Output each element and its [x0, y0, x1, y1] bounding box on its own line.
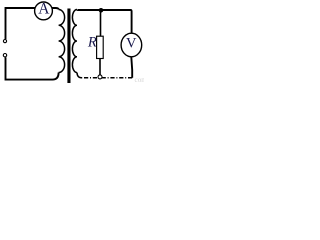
- voltmeter V: [121, 33, 142, 57]
- transformer core: [67, 9, 70, 84]
- svg-text:com: com: [135, 76, 145, 84]
- transformer primary coil: [59, 10, 65, 73]
- terminal: input bottom: [3, 54, 6, 57]
- wire: voltmeter bottom to corner: [130, 57, 133, 78]
- wire: junction down to resistor: [100, 10, 102, 36]
- wire: primary top (left corner, top run, into coil): [6, 8, 59, 39]
- wire: secondary bottom left curve from coil: [77, 73, 82, 78]
- resistor R: [97, 36, 104, 58]
- wire: primary bottom (coil to bottom wire, left run, up left side): [6, 57, 59, 79]
- svg-text:V: V: [126, 35, 137, 51]
- svg-text:A: A: [38, 0, 50, 17]
- svg-text:R: R: [87, 34, 97, 50]
- transformer secondary coil: [72, 10, 77, 73]
- node: junction dot: [99, 8, 104, 13]
- ammeter A: [35, 2, 53, 20]
- terminal: input top: [3, 40, 6, 43]
- wire: secondary top run to right corner and down to voltmeter: [77, 10, 132, 34]
- terminal: on dash-dot line under resistor: [98, 75, 102, 79]
- wire: resistor down to bottom terminal: [99, 59, 101, 76]
- wire: bottom dash-dot line: [82, 77, 133, 79]
